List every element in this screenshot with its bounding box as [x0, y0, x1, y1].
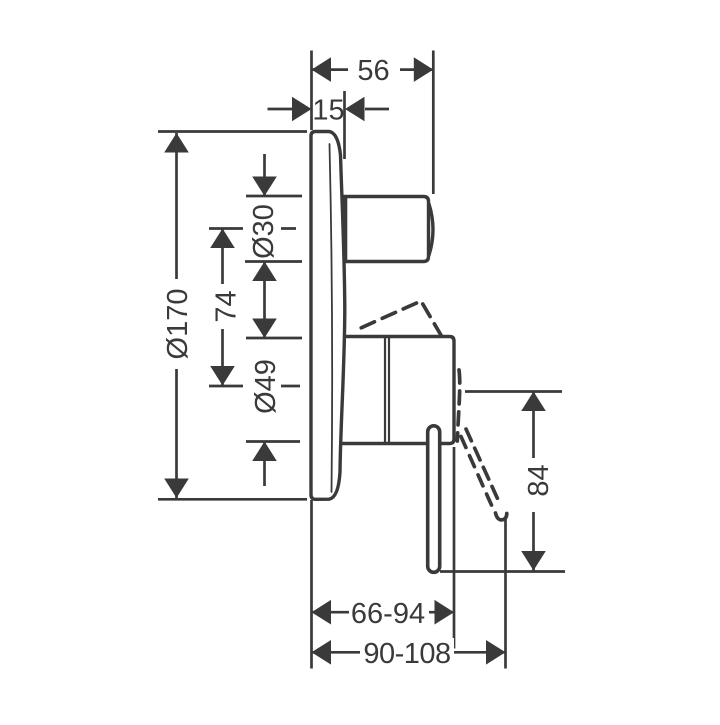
svg-text:66-94: 66-94	[351, 598, 425, 630]
svg-text:56: 56	[357, 55, 389, 87]
svg-text:Ø49: Ø49	[250, 359, 282, 414]
svg-text:90-108: 90-108	[363, 638, 450, 670]
svg-text:Ø30: Ø30	[248, 204, 280, 259]
svg-text:74: 74	[211, 290, 243, 322]
svg-text:15: 15	[312, 95, 344, 127]
svg-text:Ø170: Ø170	[162, 289, 194, 360]
svg-text:84: 84	[523, 464, 555, 496]
